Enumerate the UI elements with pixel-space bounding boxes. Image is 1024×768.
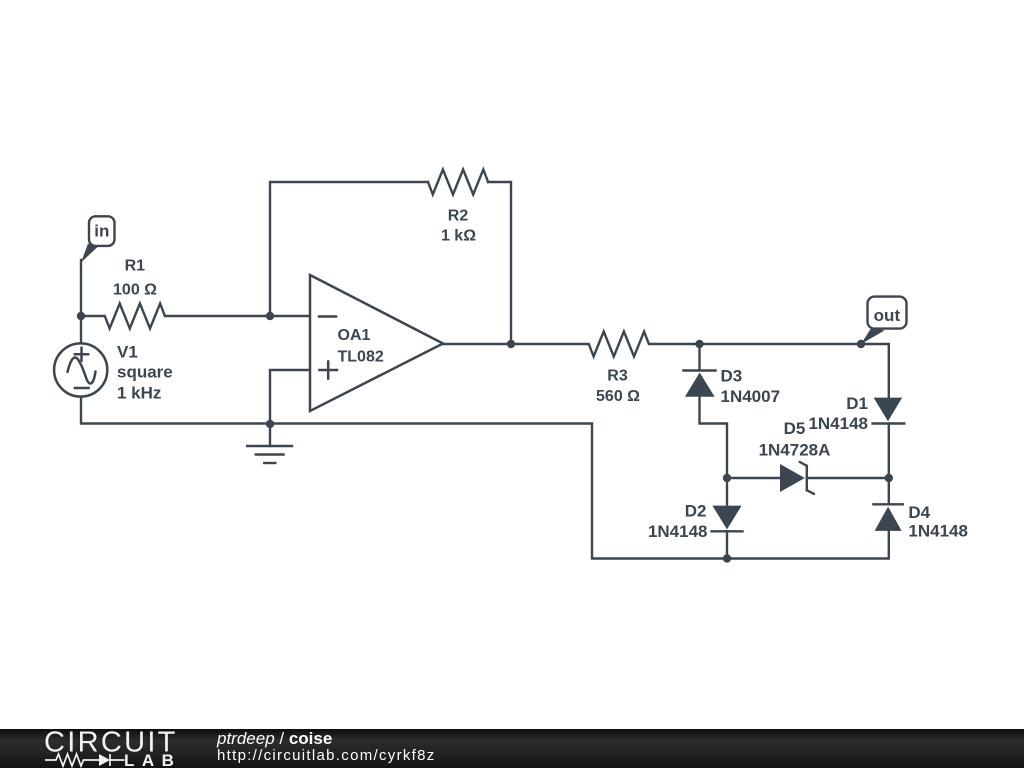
wire: zener D5 right lead xyxy=(807,477,889,479)
CircuitLab logo xyxy=(0,729,200,768)
zener diode D5 1N4728A xyxy=(780,462,814,494)
svg-text:D5: D5 xyxy=(784,419,806,438)
label D5 xyxy=(759,419,831,460)
svg-text:1N4007: 1N4007 xyxy=(721,387,781,406)
wire: D2 bottom lead xyxy=(726,531,728,558)
wire: feedback right down to output xyxy=(488,182,511,344)
svg-text:1 kΩ: 1 kΩ xyxy=(441,228,476,245)
wire: bottom ground rail xyxy=(81,396,889,559)
svg-text:TL082: TL082 xyxy=(338,349,384,366)
wire: output net with resistor R3 zigzag xyxy=(443,332,889,399)
svg-text:R3: R3 xyxy=(607,368,628,385)
node: inverting input junction xyxy=(266,312,274,320)
node: D3 anode junction xyxy=(695,340,703,348)
svg-text:out: out xyxy=(874,306,901,325)
svg-text:square: square xyxy=(117,363,173,382)
label R2 xyxy=(441,208,476,245)
footer bar xyxy=(0,729,1024,768)
label R1 xyxy=(113,258,157,299)
wire: zener D5 left lead xyxy=(727,477,780,479)
label D3 xyxy=(721,367,781,407)
wire: D4 top lead xyxy=(888,478,890,504)
wire: R1 input net with resistor R1 zigzag xyxy=(81,304,310,329)
svg-text:D4: D4 xyxy=(908,503,930,522)
net label "in" xyxy=(81,216,115,262)
label D2 xyxy=(648,502,708,541)
svg-text:1 kHz: 1 kHz xyxy=(117,384,161,403)
label D4 xyxy=(908,503,968,540)
node: D1/D4/D5 junction xyxy=(885,474,893,482)
label D1 xyxy=(808,394,868,433)
wire: non-inverting input to ground rail xyxy=(270,370,310,424)
svg-text:D2: D2 xyxy=(685,502,707,521)
wire: D3 top lead xyxy=(698,344,700,370)
svg-text:100 Ω: 100 Ω xyxy=(113,282,157,299)
op-amp OA1 xyxy=(310,275,443,411)
svg-text:1N4148: 1N4148 xyxy=(808,414,868,433)
diode D1 1N4148 xyxy=(873,398,905,424)
voltage source V1 xyxy=(54,343,107,396)
svg-text:LAB: LAB xyxy=(124,751,181,768)
svg-text:1N4728A: 1N4728A xyxy=(759,441,831,460)
svg-text:R1: R1 xyxy=(125,258,146,275)
wire: D1 bottom lead xyxy=(888,424,890,479)
svg-text:D1: D1 xyxy=(846,394,868,413)
svg-text:OA1: OA1 xyxy=(338,327,371,344)
node: V1 / R1 junction xyxy=(77,312,85,320)
diode D2 1N4148 xyxy=(712,506,743,532)
ground xyxy=(247,424,292,463)
wire: feedback net left vertical and top rail xyxy=(270,182,428,316)
credit text xyxy=(217,729,436,763)
wire: D2 top lead xyxy=(726,478,728,505)
label OA1 xyxy=(338,327,384,366)
svg-text:in: in xyxy=(94,222,109,241)
svg-text:1N4148: 1N4148 xyxy=(908,521,968,540)
node: op-amp output junction xyxy=(507,340,515,348)
label V1 value xyxy=(117,342,173,402)
node: bottom rail / D2 junction xyxy=(723,554,731,562)
wire: D3 bottom lead jog to zener node xyxy=(700,397,728,479)
svg-text:V1: V1 xyxy=(117,342,138,361)
net label "out" xyxy=(861,297,907,344)
svg-text:D3: D3 xyxy=(721,367,743,386)
node: ground junction xyxy=(266,420,274,428)
node: out junction xyxy=(857,340,865,348)
node: D2/D5 junction xyxy=(723,474,731,482)
diode D4 1N4148 xyxy=(873,504,902,531)
label R3 xyxy=(596,368,640,406)
svg-text:1N4148: 1N4148 xyxy=(648,522,708,541)
diode D3 1N4007 xyxy=(684,371,716,397)
wire: net in vertical (in label to V1 top) xyxy=(80,260,82,345)
svg-text:R2: R2 xyxy=(448,208,469,225)
svg-text:560 Ω: 560 Ω xyxy=(596,388,640,405)
resistor R2 xyxy=(428,170,488,195)
